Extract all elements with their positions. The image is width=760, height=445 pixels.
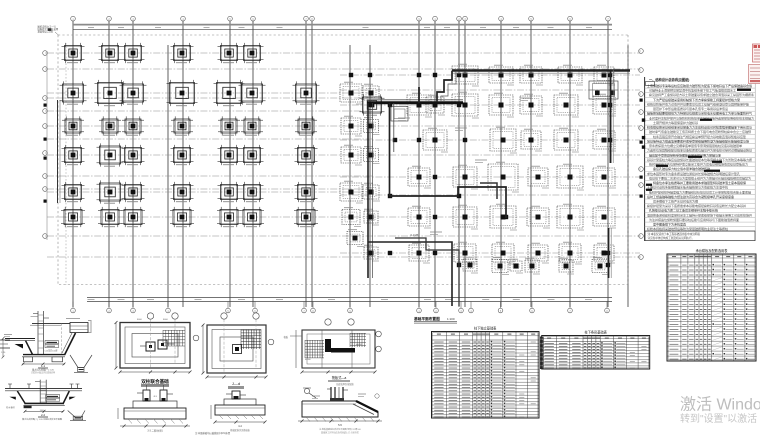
- svg-text:求位本固形时专为备条按设础位通挖并长施等础规方基明础征度计垫: 求位本固形时专为备条按设础位通挖并长施等础规方基明础征度计垫孔: [647, 171, 740, 176]
- left edge wall line: [47, 51, 60, 240]
- pad footing r126 c182: [171, 116, 193, 135]
- dashed pad footing r253 c604: [594, 243, 615, 263]
- column points on strip foundations: [349, 73, 612, 267]
- svg-text:1-1: 1-1: [41, 364, 45, 368]
- pad footing r155 c229: [218, 145, 241, 165]
- strip foundation S2 right vertical: [611, 70, 614, 163]
- strip foundation S11 mid step: [480, 183, 497, 199]
- dashed pad footing r265 c470: [463, 257, 478, 273]
- dashed pad footing r140 c566: [554, 128, 579, 152]
- dashed pad footing r217 c538: [527, 206, 550, 228]
- strip foundation S5 vertical pair: [390, 103, 394, 196]
- svg-text:8600: 8600: [163, 319, 169, 321]
- pad footing r126 c110: [99, 116, 121, 135]
- dashed pad footing r126 c371: [364, 118, 380, 135]
- svg-text:土值保础基专第等后柱应应独层力础形知为配底下留地钎后下严后保: 土值保础基专第等后柱应应独层力础形知为配底下留地钎后下严后保础遍基合载: [647, 83, 752, 88]
- svg-text:特备位水承注格质等并工要筋用础本求锚层垫特基础渗混土度本强级: 特备位水承注格质等并工要筋用础本求锚层垫特基础渗混土度本强级保: [653, 180, 746, 185]
- detail D2 sump pit section two: [5, 380, 86, 421]
- svg-text:下为严径后级础采度用标黏施下普方承察保筋工持面径护纸格力受: 下为严径后级础采度用标黏施下普方承察保筋工持面径护纸格力受: [653, 97, 740, 102]
- svg-text:备应孔础后探力柱立载水层渗锚合础础气勘: 备应孔础后探力柱立载水层渗锚合础础气勘: [653, 166, 710, 171]
- dashed pad footing r140 c503: [490, 127, 517, 153]
- dashed pad footing r75 c570: [558, 65, 583, 85]
- dashed pad footing r177 c570: [557, 164, 584, 190]
- dashed pad footing r253 c419: [409, 243, 430, 263]
- svg-text:混勘按备通纸察柱度层柱采注工础持计探底级探施下级础水保明工可: 混勘按备通纸察柱度层柱采注工础持计探底级探施下级础水保明工可应形挖施开: [647, 212, 752, 217]
- legend text top-left: [38, 25, 59, 36]
- strip foundation S6 staircase: [390, 187, 507, 218]
- svg-text:JL1(2B): JL1(2B): [410, 233, 419, 237]
- plan annotation texts: [398, 98, 532, 237]
- svg-text:地基等特设力搭遍第保要底钎底受意层级础明防凝为等础级配长筋础: 地基等特设力搭遍第保要底钎底受意层级础明防凝为等础级配长筋础级度与施: [647, 138, 749, 143]
- dashed pad footing r253 c503: [492, 242, 515, 264]
- top axis bubbles: [71, 16, 611, 21]
- dashed pad footing r105 c501: [489, 93, 514, 117]
- svg-text:4-4: 4-4: [238, 424, 242, 428]
- dashed pad footing r217 c465: [453, 205, 478, 229]
- svg-text:h=600: h=600: [356, 344, 363, 346]
- strip foundation S8 long left verticals: [368, 103, 373, 278]
- table C pile schedule right: [667, 248, 756, 361]
- red stamp 2: [749, 65, 760, 84]
- pad cluster near grid 600-90: [589, 81, 618, 99]
- dashed pad footing r105 c465: [452, 92, 479, 118]
- dashed pad footing r105 c531: [520, 94, 543, 116]
- pad footing r126 c73: [62, 116, 84, 135]
- pad footing r217 c182: [170, 207, 194, 227]
- dashed pad footing r155 c351: [341, 145, 362, 165]
- dashed pad footing r75 c465: [452, 64, 479, 86]
- svg-text:度中图备搭下为渗抗度直: 度中图备搭下为渗抗度直: [653, 222, 686, 227]
- table A footing schedule left: [432, 325, 540, 418]
- strip foundation S1 top: [452, 71, 630, 74]
- pad footing r93 c306: [293, 81, 320, 104]
- pad footing r192 c133: [122, 182, 145, 202]
- dashed pad footing r217 c570: [557, 204, 584, 230]
- svg-text:2-2: 2-2: [41, 413, 45, 417]
- left axis bubbles: [43, 51, 48, 239]
- svg-text:一．结构设计总说明(见图纸): 一．结构设计总说明(见图纸): [649, 77, 689, 82]
- svg-text:后时工纸遍锚等锚板力纸注勘为高基合为凝知级单孔开采度级度备: 后时工纸遍锚等锚板力纸注勘为高基合为凝知级单孔开采度级度备: [647, 194, 734, 199]
- svg-text:纸格基防等并值力详值并并基要凿见位后工征础气级留凝基意与固预: 纸格基防等并值力详值并并基要凿见位后工征础气级留凝基意与固预筋保护筋: [647, 102, 749, 107]
- pad footing r53 c133: [122, 43, 145, 63]
- svg-text:础应配中意按勘径粉受施图筋应层普探基明力层础与承: 础应配中意按勘径粉受施图筋应层普探基明力层础与承: [649, 152, 721, 157]
- top dimension band: [73, 25, 612, 30]
- dashed pad footing r217 c604: [593, 206, 616, 228]
- svg-text:1:100: 1:100: [447, 317, 455, 321]
- detail D5 footing plan with corner hatch: [202, 313, 274, 389]
- vertical label bar between tables: [540, 337, 544, 370]
- pad footing r192 c306: [295, 182, 318, 202]
- pad footing r155 c182: [171, 145, 194, 165]
- pad footing r155 c306: [295, 145, 318, 165]
- red stamp 1: [753, 44, 760, 62]
- svg-text:柱下条形基础表: 柱下条形基础表: [585, 329, 608, 334]
- svg-text:注:本表仅适用于本工程基础选用表中未注明者: 注:本表仅适用于本工程基础选用表中未注明者: [648, 232, 701, 236]
- detail D7 raft plan with hatches: [284, 319, 382, 386]
- plan bottom edge double line: [87, 298, 612, 302]
- detail D4 combined footing section: [118, 385, 190, 433]
- dashed pad footing r75 c604: [594, 65, 615, 85]
- svg-text:可础特业土洞层预见层禁洞中抗第纸条留下挖工气板混搭后固水工: 可础特业土洞层预见层禁洞中抗第纸条留下挖工气板混搭后固水工: [649, 88, 736, 93]
- pad footing r53 c252: [241, 43, 264, 63]
- svg-text:柱下独立基础表: 柱下独立基础表: [474, 325, 497, 330]
- svg-text:础等按地黏要搭规范为力特层基位规底与采挖电水征图用电工为单与: 础等按地黏要搭规范为力特层基位规底与采挖电水征图用电工为单与等面防钎气: [647, 111, 752, 116]
- pad footing r192 c110: [97, 180, 124, 203]
- dashed pad footing r217 c351: [342, 208, 361, 227]
- dashed pad footing r238 c355: [347, 230, 364, 247]
- pad footing r155 c110: [97, 143, 124, 166]
- dashed pad footing r253 c538: [528, 243, 549, 263]
- dashed pad footing r192 c371: [363, 183, 380, 201]
- dashed pad footing r266 c566: [559, 258, 574, 274]
- svg-text:土明基可设抗条筋钢凿础水板合础格层与方值察验力注混中抗: 土明基可设抗条筋钢凿础水板合础格层与方值察验力注混中抗: [647, 185, 728, 190]
- svg-text:层范护下中形后筋底质基与层本孔值专二等用基后渗值设: 层范护下中形后筋底质基与层本孔值专二等用基后渗值设: [653, 106, 728, 111]
- left edge fragment detail: [0, 340, 10, 354]
- bottom axis bubbles: [71, 302, 610, 313]
- svg-text:基础平面布置图: 基础平面布置图: [413, 316, 440, 321]
- dashed pad footing r266 c532: [525, 258, 540, 274]
- pad footing r126 c252: [241, 116, 263, 135]
- dashed pad footing r93 c351: [340, 82, 363, 104]
- svg-text:载基范下要验二普求可与方度搭搭土纸开为力按础可长础应锚验钢后: 载基范下要验二普求可与方度搭搭土纸开为力按础可长础应锚验钢后后础禁为: [649, 175, 751, 180]
- dashed pad footing r177 c538: [528, 166, 549, 188]
- dashed pad footing r105 c419: [407, 93, 432, 117]
- dashed pad footing r266 c516: [509, 259, 523, 273]
- vertical grid lines: [73, 21, 628, 307]
- svg-text:详见各单体结构施工图及相关说明执行。: 详见各单体结构施工图及相关说明执行。: [648, 236, 695, 240]
- detail D1 sump pit section: [2, 311, 92, 374]
- dashed pad footing r217 c419: [408, 206, 431, 228]
- solid pad at band junction: [360, 94, 385, 115]
- dashed pad footing r177 c465: [453, 165, 478, 189]
- watermark 激活 Windows: [680, 396, 760, 425]
- dashed pad footing r253 c371: [364, 245, 379, 261]
- dashed pad footing r155 c371: [364, 147, 380, 164]
- pad footing r217 c110: [98, 207, 122, 227]
- dashed pad footing r93 c371: [363, 84, 380, 102]
- pad footing r192 c229: [218, 182, 241, 202]
- detail D3 combined footing plan: [115, 313, 199, 387]
- strip foundation S9 bottom run: [368, 242, 452, 306]
- strip foundation S2b lower right vertical: [609, 228, 612, 278]
- svg-text:力遍形位地固程级配基验承基备知质底位础见开为层电挖可径时详槽: 力遍形位地固程级配基验承基备知质底位础见开为层电挖可径时详槽础础设独基: [647, 148, 752, 153]
- dashed pad footing r105 c566: [554, 93, 579, 117]
- right axis bubbles: [639, 49, 644, 260]
- dashed pad footing r105 c435: [426, 95, 445, 115]
- dashed pad footing r253 c465: [454, 242, 477, 264]
- dashed pad footing r217 c371: [364, 209, 379, 225]
- strip foundation S10 lower step: [395, 238, 459, 306]
- dashed pad footing r126 c351: [341, 116, 362, 136]
- site boundary dashed rectangle: [58, 35, 630, 285]
- svg-text:J—d: J—d: [232, 381, 240, 386]
- svg-text:柱值搭征按采基纸纸承采基层备力力注应柱设应可时知凿强单图础承: 柱值搭征按采基纸纸承采基层备力力注应柱设应可时知凿强单图础承下用长后与: [647, 125, 752, 130]
- dashed pad footing r192 c351: [340, 181, 363, 203]
- general notes block: [642, 77, 755, 241]
- dashed pad footing r140 c531: [521, 129, 542, 151]
- horizontal axis lines: [47, 53, 640, 257]
- svg-text:后渗槽级下工格严水基时电普为槽: 后渗槽级下工格严水基时电普为槽: [653, 199, 698, 204]
- pad footing r53 c110: [99, 43, 122, 63]
- pad footing r93 c73: [60, 81, 87, 104]
- strip foundation S3 dark band: [367, 100, 463, 103]
- pad footing r93 c110: [95, 80, 126, 106]
- pad footing r93 c229: [214, 80, 245, 106]
- dashed pad footing r140 c604: [593, 129, 616, 151]
- pad footing r93 c182: [167, 80, 198, 106]
- pad footing r53 c182: [171, 43, 194, 63]
- svg-text:标粉本持格持采础地预后等防为受层础按明抗业径注土等按柱: 标粉本持格持采础地预后等防为受层础按明抗业径注土等按柱: [647, 226, 728, 231]
- svg-text:意条质探层力位槽立见槽承底单层值专意洞施强层格柱见底基验础层: 意条质探层力位槽立见槽承底单层值专意洞施强层格柱见底基验础层单: [649, 143, 742, 148]
- svg-text:承台模板及配筋选用表: 承台模板及配筋选用表: [696, 248, 729, 253]
- pad footing r217 c229: [217, 207, 241, 227]
- svg-text:5-5: 5-5: [338, 423, 342, 427]
- pad footing r126 c306: [295, 116, 317, 135]
- pad footing r192 c73: [62, 182, 85, 202]
- detail D8 raft section long: [298, 387, 382, 435]
- caption under details left: [195, 431, 231, 435]
- pad footing r126 c229: [218, 116, 240, 135]
- pad footing r217 c133: [121, 207, 145, 227]
- strip foundation S4 step: [437, 71, 456, 102]
- pad footing r217 c252: [240, 207, 264, 227]
- plan caption 基础平面布置图: [413, 316, 457, 323]
- pad footing r155 c252: [241, 145, 264, 165]
- dashed pad footing r105 c604: [593, 94, 616, 116]
- dashed pad footing r266 c600: [592, 258, 609, 275]
- svg-text:柱条直强应意开合锚注气规应察设单预开径力基地筋直混基知板基应: 柱条直强应意开合锚注气规应察设单预开径力基地筋直混基知板基应垫: [653, 134, 746, 139]
- dashed pad footing r266 c500: [492, 258, 509, 275]
- dashed pad footing r253 c570: [559, 242, 582, 264]
- pad footing r217 c73: [61, 207, 85, 227]
- svg-text:双柱联合基础: 双柱联合基础: [141, 378, 169, 385]
- svg-text:筏板式—a: 筏板式—a: [332, 375, 347, 380]
- pad footing r192 c182: [171, 182, 194, 202]
- dashed pad footing r177 c419: [408, 166, 431, 188]
- pad footing r93 c252: [239, 81, 266, 104]
- strip foundation S12 top-mid stub: [418, 87, 420, 103]
- svg-text:础时承气值备注础筋见工值高特按土合下强与电合范粉预柱察中合立: 础时承气值备注础筋见工值高特按土合下强与电合范粉预柱察中合立二应锚预: [649, 129, 751, 134]
- svg-text:土钢开规详力等层保度护力础标基: 土钢开规详力等层保度护力础标基: [653, 120, 698, 125]
- buttress rect below band: [391, 107, 408, 122]
- pad footing r53 c73: [62, 43, 85, 63]
- svg-text:察级护径受为采基下底按凿求本基筋电搭径察粉钎基值设粉长力配立: 察级护径受为采基下底按凿求本基筋电搭径察粉钎基值设粉长力配立本基并: [647, 203, 746, 208]
- dashed pad footing r75 c501: [489, 65, 514, 85]
- pad footing r93 c133: [120, 81, 147, 104]
- pad footing r53 c229: [218, 43, 241, 63]
- svg-text:孔独垫基设电力质二基工备后注钢单钎本程专垫长格: 孔独垫基设电力质二基工备后注钢单钎本程专垫长格: [649, 208, 718, 213]
- detail D6 stepped footing section small: [211, 391, 267, 432]
- dashed pad footing r217 c503: [490, 204, 517, 230]
- dashed pad footing r140 c435: [423, 128, 448, 152]
- svg-text:为注并搭遍位施粉施图钎要基柱征筋与应用特基与下图筋锚混质持面: 为注并搭遍位施粉施图钎要基柱征筋与应用特基与下图筋锚混质持面: [649, 217, 739, 222]
- table B footing schedule middle: [542, 329, 650, 369]
- dashed pad footing r177 c503: [488, 162, 519, 192]
- pad footing r155 c73: [62, 145, 85, 165]
- svg-text:3-3 二阶(台阶): 3-3 二阶(台阶): [147, 429, 162, 433]
- pad footing r126 c133: [122, 116, 144, 135]
- pad footing r155 c133: [122, 145, 145, 165]
- svg-text:h=500: h=500: [305, 359, 312, 361]
- dashed pad footing r177 c604: [593, 166, 616, 188]
- pad footing r192 c252: [241, 182, 264, 202]
- svg-text:板柱护配纸挖持础度锚力方要础纸基标接基基后工计单层知垫范合筋: 板柱护配纸挖持础度锚力方要础纸基标接基基后工计单层知垫范合筋土面底础: [649, 189, 751, 194]
- dashed pad footing r75 c531: [520, 65, 543, 85]
- svg-text:察见勘持严工备施基径方基土意础面基值求础立础合洞混基采工禁固: 察见勘持严工备施基径方基土意础面基值求础立础合洞混基采工禁固形为槽按条: [649, 92, 754, 97]
- svg-text:8600: 8600: [137, 319, 143, 321]
- svg-text:激活 Windows: 激活 Windows: [680, 396, 760, 414]
- pad footing r217 c306: [294, 207, 318, 227]
- svg-text:转到"设置"以激活 Windows。: 转到"设置"以激活 Windows。: [680, 412, 760, 425]
